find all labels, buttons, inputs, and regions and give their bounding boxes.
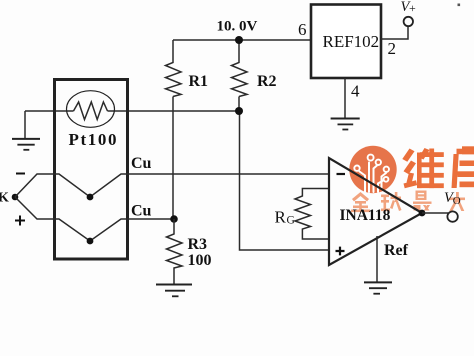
svg-text:G: G — [287, 215, 295, 227]
watermark text 维 — [402, 148, 444, 188]
node R2 junction dot — [235, 107, 243, 115]
Pt100 enclosure box — [55, 80, 128, 260]
resistor Pt100 zigzag — [74, 102, 108, 120]
svg-text:INA118: INA118 — [340, 207, 391, 224]
label plus input — [336, 247, 345, 256]
wire upper Cu — [15, 174, 329, 197]
wire top bus 10.0V — [173, 39, 311, 41]
wire Ref pin — [376, 236, 378, 282]
svg-text:K: K — [0, 191, 9, 206]
junction dot lower V — [87, 238, 94, 245]
label plus at K — [15, 216, 25, 226]
wire R2 bottom lead — [238, 97, 240, 112]
terminal VO circle — [447, 211, 457, 221]
resistor RG — [295, 189, 329, 240]
sensor Pt100 ellipse — [67, 91, 115, 128]
svg-text:R3: R3 — [188, 236, 208, 253]
pin 4 wire — [344, 78, 346, 118]
svg-text:R1: R1 — [189, 73, 209, 90]
svg-text:2: 2 — [388, 39, 397, 58]
svg-text:Pt100: Pt100 — [69, 130, 119, 149]
wire R1 bottom lead to lower Cu wire — [172, 97, 174, 220]
svg-text:4: 4 — [351, 82, 360, 101]
svg-text:Ref: Ref — [384, 242, 409, 259]
label minus at K — [16, 173, 25, 175]
node K dot — [12, 194, 19, 201]
node R3 top dot — [170, 215, 178, 223]
node 10.0V junction dot — [235, 36, 243, 44]
wire bridge top rail (through Pt100) — [25, 110, 74, 112]
wire Pt100 to R2 node — [108, 110, 240, 112]
terminal V+ circle — [404, 17, 413, 26]
label minus input — [337, 173, 346, 175]
junction dot upper V — [87, 194, 94, 201]
svg-text:R: R — [275, 208, 287, 227]
ground G2 bars — [331, 119, 360, 130]
svg-text:Cu: Cu — [131, 155, 152, 172]
svg-text:6: 6 — [298, 20, 307, 39]
wire plus feed vertical — [240, 111, 330, 250]
ground G1 bars — [12, 139, 40, 150]
ground G1 stem — [24, 111, 26, 139]
svg-text:R2: R2 — [257, 73, 277, 90]
resistor R1 — [166, 40, 182, 97]
svg-text:10. 0V: 10. 0V — [217, 19, 258, 35]
watermark text 全球最大 — [351, 191, 465, 213]
wire lower Cu — [15, 197, 174, 241]
ground G4 bars — [364, 282, 392, 293]
svg-text:O: O — [453, 195, 461, 207]
ground G3 bars — [156, 285, 192, 297]
output node dot — [419, 210, 426, 217]
watermark text 库 (clipped at right edge) — [452, 146, 474, 188]
box REF102 — [311, 5, 381, 79]
artifact speck top-right — [458, 4, 461, 7]
svg-text:+: + — [409, 1, 416, 15]
svg-text:100: 100 — [188, 252, 212, 269]
resistor R2 — [232, 40, 248, 97]
svg-text:Cu: Cu — [131, 203, 152, 220]
wire output — [422, 212, 448, 214]
resistor R3 — [167, 219, 183, 284]
op-amp U1 INA118 triangle — [329, 158, 422, 265]
pin 2 wire — [381, 27, 408, 40]
svg-text:REF102: REF102 — [323, 32, 380, 51]
watermark logo — [349, 146, 396, 193]
